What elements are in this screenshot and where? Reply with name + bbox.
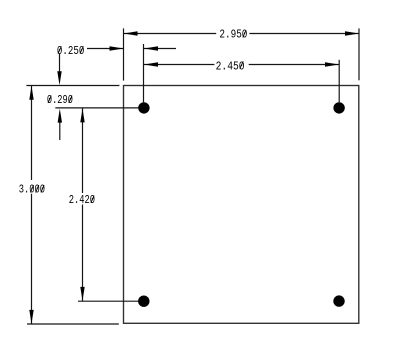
dimension line 3.000 — [31, 86, 33, 325]
hole bottom-left — [138, 296, 149, 307]
slash zero of 2.450 — [240, 61, 243, 68]
hole top-right — [333, 102, 344, 113]
slash zero of 2.950 — [243, 30, 246, 37]
extension line plate left edge up (2.950/0.250 ref) — [123, 28, 125, 80]
hole top-left — [138, 102, 149, 113]
dimension 0.290 upper arrow tail — [59, 53, 61, 72]
slash zero of 2.420 — [91, 196, 94, 203]
extension line hole centerline upper (0.290/2.420 ref) — [55, 107, 144, 109]
svg-text:0.250: 0.250 — [57, 44, 85, 58]
dimension line 2.950 — [124, 33, 360, 35]
extension line top-left hole up (0.250/2.450 ref) — [143, 44, 145, 102]
dimension line 0.250 left part — [87, 48, 124, 50]
dimension line 2.420 — [82, 108, 84, 301]
svg-text:2.420: 2.420 — [69, 193, 95, 207]
hole bottom-right — [333, 295, 344, 306]
slash zeros of 0.250 — [58, 46, 61, 53]
svg-text:0.290: 0.290 — [47, 93, 73, 107]
arrow 0.250 left (points right at plate edge) — [110, 46, 124, 50]
arrow 0.250 right (points left at hole line) — [144, 46, 158, 50]
arrow 2.420 top — [80, 108, 84, 122]
arrow 2.420 bottom — [80, 287, 84, 301]
arrow 3.000 top — [29, 86, 33, 100]
plate outline — [124, 86, 359, 324]
arrow 2.950 right — [345, 31, 359, 35]
extension line hole centerline lower (2.420 ref) — [78, 300, 144, 302]
arrow 2.950 left — [124, 31, 138, 35]
dimension line 0.250 right tail — [144, 48, 176, 50]
arrow 2.450 left — [144, 62, 158, 66]
arrow 2.450 right — [325, 62, 339, 66]
svg-text:2.950: 2.950 — [219, 28, 247, 42]
arrow 3.000 bottom — [29, 310, 33, 324]
slash zeros of 3.000 — [30, 185, 33, 192]
arrow 0.290 lower (points up at hole line) — [58, 109, 62, 123]
extension line top-right hole up (2.450 ref) — [338, 60, 340, 103]
extension line plate right edge up (2.950 ref) — [358, 28, 360, 80]
slash zeros of 0.290 — [48, 96, 51, 103]
extension line top edge left (3.000/0.290 ref) — [26, 85, 119, 87]
dimension 0.290 lower arrow tail — [59, 122, 61, 140]
svg-text:2.450: 2.450 — [216, 59, 245, 73]
dimension line 2.450 — [144, 64, 339, 66]
arrow 0.290 upper (points down at top edge) — [57, 71, 61, 85]
extension line bottom edge left (3.000 ref) — [27, 323, 119, 325]
